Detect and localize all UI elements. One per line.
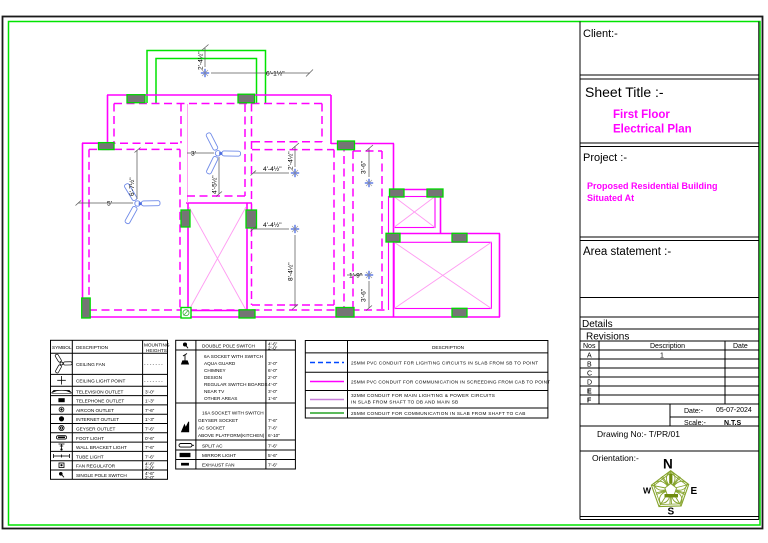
svg-text:AC SOCKET: AC SOCKET — [198, 426, 225, 431]
svg-text:DESCRIPTION: DESCRIPTION — [432, 345, 464, 350]
outer wall right upper — [330, 95, 332, 144]
bottom outer wall — [82, 316, 500, 318]
small shaft diagonal cross — [394, 197, 435, 228]
revision header bottom — [580, 349, 759, 351]
bottom wall inner dashed — [89, 309, 388, 311]
details band bottom — [580, 328, 759, 330]
svg-text:16A SOCKET WITH SWITCH: 16A SOCKET WITH SWITCH — [202, 411, 264, 416]
outer wall top — [107, 94, 331, 96]
svg-text:TELEPHONE OUTLET: TELEPHONE OUTLET — [76, 399, 124, 404]
svg-text:Electrical Plan: Electrical Plan — [613, 124, 692, 136]
corridor left wall dashed — [343, 144, 345, 318]
light point P3 hall lower — [291, 225, 299, 233]
small shaft right wall — [440, 190, 442, 234]
svg-text:AIRCON OUTLET: AIRCON OUTLET — [76, 408, 114, 413]
drawing no section bottom — [580, 450, 759, 452]
svg-text:First Floor: First Floor — [613, 109, 670, 121]
svg-text:3'-6": 3'-6" — [361, 160, 368, 174]
svg-text:CEILING FAN: CEILING FAN — [76, 362, 105, 367]
svg-text:Project :-: Project :- — [583, 152, 627, 164]
legend1 symbols — [55, 354, 72, 374]
column top wall left — [127, 95, 145, 103]
balcony green inner wall — [156, 59, 257, 104]
svg-text:SINGLE POLE SWITCH: SINGLE POLE SWITCH — [76, 473, 127, 478]
dim end ticks — [76, 148, 373, 311]
title block left vertical line — [579, 22, 581, 520]
dim P3 horizontal leader — [253, 228, 289, 230]
svg-text:7'-6": 7'-6" — [268, 426, 278, 431]
compass petals — [653, 472, 689, 506]
svg-text:32MM CONDUIT FOR MAIN LIGHTI: 32MM CONDUIT FOR MAIN LIGHTING & POWER C… — [351, 393, 495, 398]
conduit sample blue dashed — [310, 362, 344, 364]
dim P2 horizontal leader — [253, 172, 289, 174]
compass radial spokes — [651, 471, 688, 507]
svg-text:3'-6": 3'-6" — [361, 288, 368, 302]
compass center white pentagon — [665, 484, 677, 495]
svg-text:Proposed Residential Building: Proposed Residential Building — [587, 181, 718, 191]
svg-text:OTHER AREAS: OTHER AREAS — [204, 396, 237, 401]
svg-text:2'-0": 2'-0" — [145, 475, 155, 480]
svg-text:FAN REGULATOR: FAN REGULATOR — [76, 464, 116, 469]
conduit sample violet — [310, 399, 344, 401]
corridor top inner dashed — [353, 150, 382, 152]
svg-text:4'-0": 4'-0" — [268, 382, 278, 387]
column stair top-left — [181, 210, 190, 227]
svg-text:5'-6": 5'-6" — [268, 453, 278, 458]
svg-text:3': 3' — [191, 151, 196, 158]
svg-text:CEILING LIGHT POINT: CEILING LIGHT POINT — [76, 379, 126, 384]
date scale rows — [669, 404, 671, 426]
svg-text:Scale:-: Scale:- — [684, 420, 706, 427]
svg-text:GEYSER SOCKET: GEYSER SOCKET — [198, 418, 238, 423]
svg-text:4'-5½": 4'-5½" — [211, 175, 219, 194]
svg-text:Revisions: Revisions — [586, 332, 629, 343]
svg-text:AQUA GUARD: AQUA GUARD — [204, 361, 236, 366]
revision rows — [580, 358, 759, 360]
ceiling fan F1 — [124, 183, 160, 224]
hall top inner dashed — [252, 149, 334, 151]
svg-text:DESCRIPTION: DESCRIPTION — [76, 345, 108, 350]
corridor right wall upper — [393, 144, 395, 190]
svg-text:6A SOCKET WITH SWITCH: 6A SOCKET WITH SWITCH — [204, 354, 263, 359]
svg-text:7'-6": 7'-6" — [268, 462, 278, 467]
column small shaft top-right — [427, 189, 443, 197]
svg-text:Date:-: Date:- — [684, 408, 704, 415]
svg-text:4'-4½": 4'-4½" — [263, 165, 282, 173]
svg-text:DOUBLE POLE SWITCH: DOUBLE POLE SWITCH — [202, 344, 255, 349]
svg-text:3'-0": 3'-0" — [268, 389, 278, 394]
column stair bottom-right — [239, 310, 255, 318]
project section divider double line — [580, 236, 759, 238]
shaft left wall outer face — [388, 196, 390, 310]
column top right corner — [338, 141, 355, 150]
room C left thin wall — [187, 104, 189, 203]
balcony green outer wall — [147, 51, 266, 104]
dim P5 vertical leader — [368, 281, 370, 308]
svg-text:4'-4½": 4'-4½" — [263, 221, 282, 229]
corridor right inner dashed — [381, 151, 383, 310]
svg-text:- - - - - - -: - - - - - - - — [144, 362, 163, 367]
column large shaft top-mid — [452, 233, 467, 242]
svg-text:SPLIT AC: SPLIT AC — [202, 443, 223, 448]
stair well right wall — [246, 203, 248, 311]
svg-text:SYMBOL: SYMBOL — [52, 345, 72, 350]
corridor right wall lower / large shaft left wall — [393, 189, 395, 317]
svg-text:1'-9": 1'-9" — [349, 273, 363, 280]
conduit sample magenta — [310, 381, 344, 383]
svg-text:DESIGN: DESIGN — [204, 375, 222, 380]
dim balcony vertical leader — [204, 48, 206, 67]
column large shaft top-left — [386, 233, 400, 242]
large shaft diagonal cross — [394, 242, 491, 308]
svg-text:CHIMNEY: CHIMNEY — [204, 368, 226, 373]
legend table 1 frame — [51, 340, 168, 479]
client section divider double line — [580, 74, 759, 76]
svg-text:05-07-2024: 05-07-2024 — [716, 407, 752, 414]
svg-text:2'-0": 2'-0" — [145, 466, 155, 471]
svg-text:TUBE LIGHT: TUBE LIGHT — [76, 454, 104, 459]
svg-text:MIRROR LIGHT: MIRROR LIGHT — [202, 453, 236, 458]
left outer wall — [82, 143, 84, 317]
left wing top wall — [82, 142, 107, 144]
light point P4 corridor upper — [365, 179, 373, 187]
svg-text:1'-3": 1'-3" — [145, 399, 155, 404]
column bottom left — [82, 298, 91, 318]
svg-text:D: D — [587, 380, 592, 387]
svg-text:INTERNET OUTLET: INTERNET OUTLET — [76, 417, 119, 422]
svg-text:1'-3": 1'-3" — [145, 417, 155, 422]
svg-text:7'-6": 7'-6" — [145, 427, 155, 432]
stair well diagonal cross — [189, 207, 246, 310]
svg-text:6'-7½": 6'-7½" — [128, 177, 136, 196]
svg-text:ABOVE PLATFORM(KITCHEN): ABOVE PLATFORM(KITCHEN) — [198, 433, 265, 438]
room D bottom dashed — [252, 141, 322, 143]
svg-text:REGULAR SWITCH BOARDS: REGULAR SWITCH BOARDS — [204, 382, 268, 387]
svg-text:E: E — [691, 486, 698, 497]
column large shaft bottom — [452, 308, 467, 317]
title block right vertical line — [758, 22, 760, 520]
light point P5 corridor lower — [365, 271, 373, 279]
stair well bottom wall — [186, 310, 253, 312]
ceiling fan F2 — [206, 132, 241, 175]
svg-text:3'-0": 3'-0" — [268, 361, 278, 366]
svg-text:GEYSER OUTLET: GEYSER OUTLET — [76, 427, 115, 432]
column stair bottom-left green hatch — [181, 308, 191, 319]
svg-text:N: N — [663, 457, 673, 472]
small shaft inner rect — [394, 197, 435, 228]
dim P5 horizontal leader and text — [347, 274, 363, 276]
revision table column lines — [598, 341, 600, 404]
svg-text:Date: Date — [733, 343, 748, 350]
svg-text:Sheet Title :-: Sheet Title :- — [585, 84, 664, 100]
svg-text:Area statement :-: Area statement :- — [583, 246, 671, 258]
dim P3 vertical leader — [294, 235, 296, 307]
corridor left inner dashed — [352, 151, 354, 310]
svg-text:7'-6": 7'-6" — [145, 445, 155, 450]
room C bottom dashed — [187, 195, 245, 197]
dim P4 vertical leader — [368, 148, 370, 177]
svg-text:0'-6": 0'-6" — [145, 436, 155, 441]
svg-text:MOUNTING: MOUNTING — [144, 343, 170, 348]
conduit legend table frame — [305, 341, 548, 419]
svg-text:1'-6": 1'-6" — [268, 396, 278, 401]
revisions band bottom — [580, 340, 759, 342]
stair well top wall — [186, 202, 252, 204]
svg-text:25MM CONDUIT FOR COMMUNICATI: 25MM CONDUIT FOR COMMUNICATION IN SLAB F… — [351, 411, 526, 416]
room C right dashed — [244, 104, 246, 196]
svg-text:A: A — [587, 353, 592, 360]
column left wing — [99, 143, 115, 150]
compass N bar — [669, 474, 672, 484]
svg-text:2'-4½": 2'-4½" — [197, 51, 205, 70]
svg-text:6'-0": 6'-0" — [268, 368, 278, 373]
svg-text:2'-0": 2'-0" — [268, 375, 278, 380]
room A left dashed — [113, 104, 115, 144]
hall right dashed — [333, 150, 335, 305]
svg-text:Drawing No:- T/PR/01: Drawing No:- T/PR/01 — [597, 429, 680, 439]
column stair top-right — [246, 210, 257, 228]
svg-text:8'-4½": 8'-4½" — [287, 262, 295, 281]
room D right dashed — [321, 104, 323, 142]
svg-text:6'-10": 6'-10" — [268, 433, 280, 438]
svg-text:6'-1½": 6'-1½" — [266, 70, 285, 78]
svg-text:Client:-: Client:- — [583, 28, 618, 40]
details band top — [580, 316, 759, 318]
svg-text:7'-6": 7'-6" — [268, 443, 278, 448]
svg-text:WALL BRACKET LIGHT: WALL BRACKET LIGHT — [76, 445, 127, 450]
svg-text:Nos: Nos — [583, 343, 596, 350]
dim P2 vertical leader — [294, 146, 296, 167]
svg-text:- - - - - - -: - - - - - - - — [144, 379, 163, 384]
dim fan1 vertical leader — [136, 150, 138, 199]
large shaft inner rect — [394, 242, 491, 308]
svg-text:Details: Details — [582, 319, 613, 330]
bottom double line — [580, 516, 759, 518]
room B right dashed — [179, 149, 181, 310]
large shaft right wall — [499, 234, 501, 318]
svg-text:S: S — [668, 507, 675, 518]
small shaft top wall — [394, 189, 442, 191]
step wall to large shaft — [394, 233, 501, 235]
svg-text:1: 1 — [660, 353, 664, 360]
hall bottom dashed — [252, 304, 334, 306]
svg-text:25MM PVC CONDUIT FOR COMMUN: 25MM PVC CONDUIT FOR COMMUNICATION IN SC… — [351, 380, 550, 385]
legend table 2 frame — [176, 340, 296, 469]
svg-text:TELEVISION OUTLET: TELEVISION OUTLET — [76, 389, 124, 394]
wall C-E dashed — [251, 104, 253, 306]
light point P2 hall upper — [291, 169, 299, 177]
svg-text:C: C — [587, 371, 592, 378]
room B top dashed — [89, 148, 180, 150]
svg-text:EXHAUST FAN: EXHAUST FAN — [202, 462, 234, 467]
svg-text:7'-6": 7'-6" — [145, 454, 155, 459]
outer wall top of corridor — [331, 143, 394, 145]
dim fan2 horizontal leader — [187, 152, 214, 154]
top wall inner dashed line — [114, 103, 324, 105]
svg-text:3'-0": 3'-0" — [145, 389, 155, 394]
dim fan1 horizontal leader — [78, 202, 133, 204]
svg-text:F: F — [587, 398, 592, 405]
svg-text:2'-4½": 2'-4½" — [287, 151, 295, 170]
column small shaft top-left — [390, 189, 405, 197]
svg-text:25MM PVC CONDUIT FOR LIGHTIN: 25MM PVC CONDUIT FOR LIGHTING CIRCUITS I… — [351, 361, 538, 366]
svg-text:7'-6": 7'-6" — [145, 408, 155, 413]
svg-text:HEIGHTS: HEIGHTS — [146, 348, 167, 353]
svg-text:2'-0": 2'-0" — [268, 346, 278, 351]
svg-text:Orientation:-: Orientation:- — [592, 453, 639, 463]
column corridor bottom-left — [336, 308, 354, 318]
dim balcony horizontal leader — [211, 72, 310, 74]
room B left dashed — [88, 149, 90, 310]
svg-text:IN SLAB FROM SHAFT TO DB AN: IN SLAB FROM SHAFT TO DB AND MAIN SB — [351, 400, 458, 405]
svg-text:N.T.S: N.T.S — [724, 420, 741, 427]
area statement divider — [580, 297, 759, 299]
svg-text:Situated At: Situated At — [587, 193, 634, 203]
room A right dashed — [180, 104, 182, 144]
light point P1 balcony — [201, 69, 209, 77]
svg-text:E: E — [587, 389, 592, 396]
svg-text:W: W — [643, 486, 652, 496]
svg-text:Description: Description — [650, 343, 685, 350]
sheet title section divider double line — [580, 142, 759, 144]
svg-text:7'-6": 7'-6" — [268, 418, 278, 423]
svg-text:FOOT LIGHT: FOOT LIGHT — [76, 436, 104, 441]
dim fan2 vertical leader — [218, 157, 220, 194]
conduit sample green — [310, 412, 344, 414]
legend2 symbols — [179, 343, 194, 465]
upper left outer wall — [107, 95, 109, 143]
room A bottom dashed — [108, 142, 182, 144]
stair well left wall — [187, 203, 189, 317]
compass center bar — [665, 494, 679, 497]
compass rose pentagon — [651, 471, 688, 507]
column top wall right — [238, 94, 255, 103]
svg-text:5': 5' — [107, 201, 112, 208]
svg-text:NEAR TV: NEAR TV — [204, 389, 225, 394]
svg-text:B: B — [587, 362, 592, 369]
